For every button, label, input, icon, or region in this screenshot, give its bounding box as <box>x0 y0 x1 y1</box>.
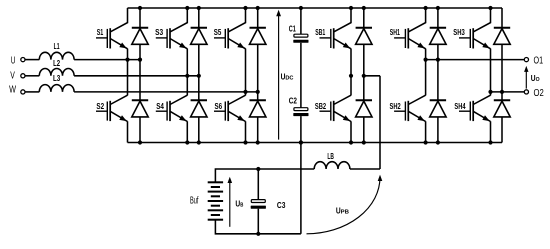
junction diode S6 bottom bus <box>256 140 260 144</box>
diode across SH1 <box>430 8 446 44</box>
wire diode column SH3/SH4 <box>501 44 503 100</box>
svg-text:UB: UB <box>235 199 243 208</box>
transistor SH1 (IGBT) <box>390 8 426 49</box>
wire output O1 <box>426 59 525 61</box>
transistor S4 (IGBT) <box>156 95 188 121</box>
battery Buf <box>190 182 223 219</box>
transistor S1 (IGBT) <box>96 8 128 49</box>
svg-text:LB: LB <box>327 151 334 161</box>
wire S2 emitter to bottom bus <box>127 121 129 142</box>
transistor S5 (IGBT) <box>214 8 246 49</box>
junction C3 bottom <box>256 232 260 236</box>
input terminal W <box>9 84 25 95</box>
wire SH4 emitter to bottom bus <box>490 121 492 142</box>
wire LB to vertical <box>350 168 380 170</box>
svg-text:SH2: SH2 <box>390 101 401 111</box>
svg-text:L2: L2 <box>53 58 60 68</box>
svg-text:SB2: SB2 <box>315 101 326 111</box>
wire S1 emitter to midpoint <box>127 49 129 96</box>
junction SB1 top bus <box>349 6 353 10</box>
junction diode SH3 midpoint <box>500 90 504 94</box>
junction SH4 bottom bus <box>488 140 492 144</box>
wire SB1 emitter to midpoint <box>350 49 352 96</box>
wire SH1 emitter to midpoint <box>425 49 427 96</box>
junction S5 midpoint <box>243 90 247 94</box>
svg-text:U: U <box>11 56 16 67</box>
junction SB1 midpoint <box>349 74 353 78</box>
diode across S3 <box>191 8 207 44</box>
output terminal O2 <box>524 88 543 99</box>
junction diode SH1 top bus <box>436 6 440 10</box>
input terminal V <box>10 70 25 81</box>
svg-text:S2: S2 <box>96 101 104 111</box>
junction diode S4 bottom bus <box>197 140 201 144</box>
svg-text:L3: L3 <box>53 73 60 83</box>
wire battery bottom <box>215 220 301 234</box>
wire SB midpoint to LB branch <box>364 75 380 77</box>
diode across SB2 <box>356 100 372 142</box>
junction diode SB1 midpoint <box>362 74 366 78</box>
junction S6 bottom bus <box>243 140 247 144</box>
svg-text:W: W <box>9 84 17 95</box>
output terminal O1 <box>524 56 543 67</box>
junction SH3 midpoint <box>488 90 492 94</box>
diode across S6 <box>250 100 266 142</box>
transistor SH4 (IGBT) <box>454 95 490 121</box>
junction diode SB1 top bus <box>362 6 366 10</box>
svg-text:S1: S1 <box>97 27 104 37</box>
svg-text:UPB: UPB <box>336 206 349 215</box>
junction S3 top bus <box>185 6 189 10</box>
svg-text:C3: C3 <box>277 200 286 210</box>
inductor LB <box>314 151 350 169</box>
transistor SB1 (IGBT) <box>315 8 351 49</box>
capacitor C2 <box>293 108 308 143</box>
junction diode S5 midpoint <box>256 90 260 94</box>
svg-text:C2: C2 <box>289 96 297 106</box>
capacitor C3 <box>251 169 266 234</box>
wire diode column S5/S6 <box>257 44 259 100</box>
svg-text:S5: S5 <box>214 27 222 37</box>
diode across SH2 <box>430 100 446 142</box>
wire phase W to leg S5/S6 <box>74 91 258 93</box>
inductor L3 <box>25 73 74 92</box>
junction S4 bottom bus <box>185 140 189 144</box>
diode across SH3 <box>494 8 510 44</box>
junction diode S5 top bus <box>256 6 260 10</box>
svg-text:Buf: Buf <box>190 196 199 207</box>
junction SH2 bottom bus <box>424 140 428 144</box>
wire bottom bus to battery minus <box>300 143 302 234</box>
svg-text:SB1: SB1 <box>315 27 325 37</box>
junction C1 top bus <box>299 6 303 10</box>
wire SH2 emitter to bottom bus <box>425 121 427 142</box>
transistor S3 (IGBT) <box>155 8 187 49</box>
svg-text:S6: S6 <box>215 101 223 111</box>
transistor S6 (IGBT) <box>214 95 246 121</box>
junction diode S1 midpoint <box>138 58 142 62</box>
transistor SH2 (IGBT) <box>390 95 426 121</box>
junction diode SH1 midpoint <box>436 58 440 62</box>
input terminal U <box>11 56 25 67</box>
svg-text:O1: O1 <box>534 56 544 67</box>
svg-text:V: V <box>10 70 15 81</box>
junction bottom bus / battery branch <box>299 140 303 144</box>
voltage arrow UPB (arc) <box>307 175 383 234</box>
wire output O2 <box>491 91 525 93</box>
wire diode column S3/S4 <box>198 44 200 100</box>
svg-text:S4: S4 <box>156 101 164 111</box>
junction C3 top <box>256 167 260 171</box>
diode across S1 <box>132 8 148 44</box>
wire battery top / LB line <box>215 169 314 182</box>
svg-text:O2: O2 <box>534 88 544 99</box>
voltage arrow UDC <box>276 10 294 140</box>
wire diode column S1/S2 <box>139 44 141 100</box>
wire diode column SH1/SH2 <box>437 44 439 100</box>
svg-text:UDC: UDC <box>281 73 295 82</box>
svg-text:SH1: SH1 <box>390 27 400 37</box>
top DC bus (+) <box>128 7 503 9</box>
transistor SB2 (IGBT) <box>315 95 351 121</box>
wire S4 emitter to bottom bus <box>186 121 188 142</box>
inductor L2 <box>25 58 74 76</box>
wire phase V to leg S3/S4 <box>74 75 199 77</box>
diode across S5 <box>250 8 266 44</box>
wire LB branch vertical <box>379 76 381 169</box>
junction SB2 bottom bus <box>349 140 353 144</box>
junction SH3 top bus <box>488 6 492 10</box>
diode across S4 <box>191 100 207 142</box>
junction SH1 midpoint <box>424 58 428 62</box>
junction SH1 top bus <box>424 6 428 10</box>
junction diode S3 midpoint <box>197 74 201 78</box>
junction S1 midpoint <box>125 58 129 62</box>
svg-text:SH4: SH4 <box>454 101 465 111</box>
wire S5 emitter to midpoint <box>245 49 247 96</box>
junction diode S3 top bus <box>197 6 201 10</box>
svg-text:UO: UO <box>531 74 540 83</box>
voltage arrow UB <box>228 177 244 227</box>
svg-text:C1: C1 <box>289 24 296 34</box>
junction diode S1 top bus <box>138 6 142 10</box>
svg-text:L1: L1 <box>54 41 60 51</box>
diode across S2 <box>132 100 148 142</box>
diode across SB1 <box>356 8 372 44</box>
voltage arrow UO <box>524 66 540 89</box>
junction diode SB2 bottom bus <box>362 140 366 144</box>
junction diode SH2 bottom bus <box>436 140 440 144</box>
wire phase U to leg S1/S2 <box>74 59 140 61</box>
junction S5 top bus <box>243 6 247 10</box>
svg-text:SH3: SH3 <box>453 27 465 37</box>
wire SH3 emitter to midpoint <box>490 49 492 96</box>
capacitor C1 <box>293 8 308 108</box>
wire diode column SB1/SB2 <box>363 44 365 100</box>
bottom DC bus (-) <box>128 142 503 144</box>
transistor S2 (IGBT) <box>96 95 128 121</box>
junction diode S2 bottom bus <box>138 140 142 144</box>
junction C2 bottom bus <box>299 140 303 144</box>
wire S3 emitter to midpoint <box>186 49 188 96</box>
inductor L1 <box>25 41 74 60</box>
wire S6 emitter to bottom bus <box>245 121 247 142</box>
svg-text:S3: S3 <box>155 27 163 37</box>
wire SB2 emitter to bottom bus <box>350 121 352 142</box>
junction S3 midpoint <box>185 74 189 78</box>
transistor SH3 (IGBT) <box>453 8 490 49</box>
diode across SH4 <box>494 100 510 142</box>
